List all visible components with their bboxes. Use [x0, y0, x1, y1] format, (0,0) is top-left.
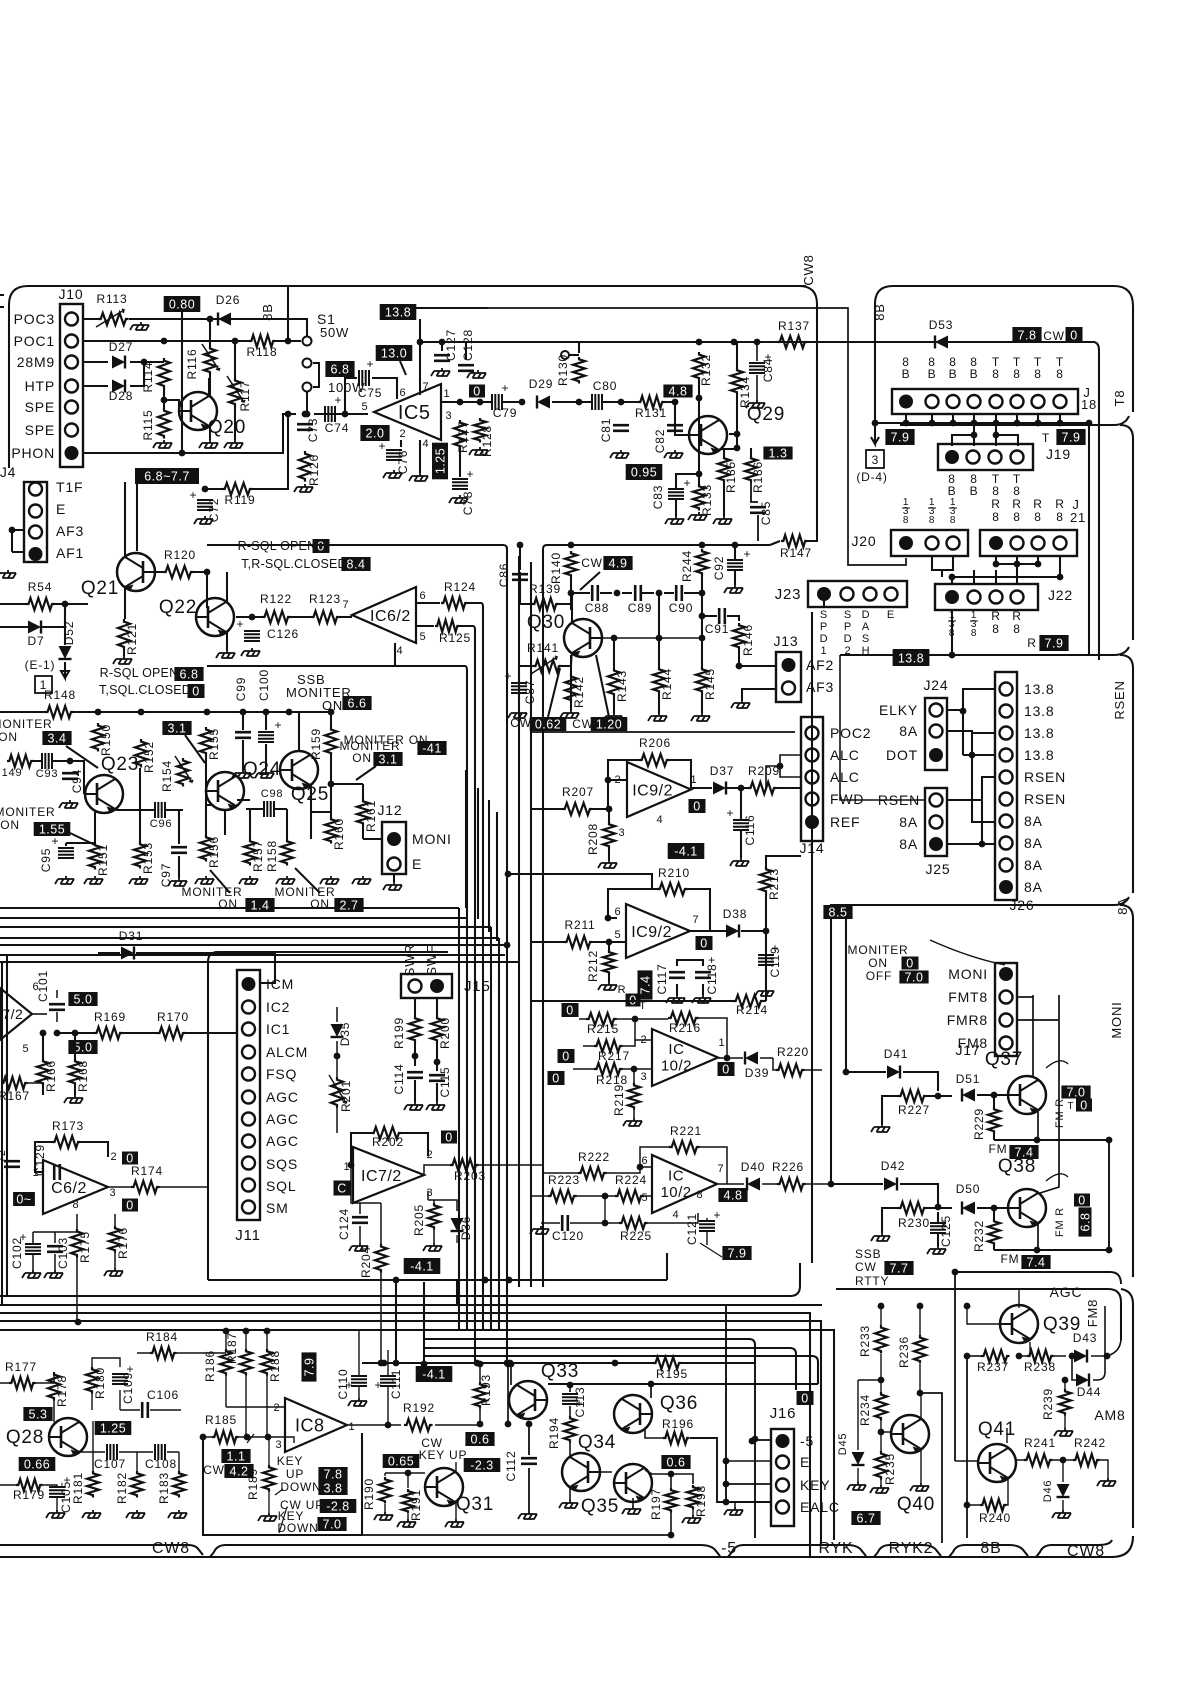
diode D42 — [884, 1178, 897, 1191]
svg-text:R180: R180 — [93, 1367, 107, 1399]
junction e tap — [723, 1458, 730, 1465]
value 5.3 tag — [23, 1407, 52, 1422]
junction q29 coll — [734, 431, 741, 438]
wire vert 424 — [423, 1282, 425, 1364]
svg-text:ON: ON — [310, 897, 330, 911]
wire key pointer — [275, 1489, 287, 1533]
wire c88 row — [571, 592, 702, 594]
connector J10 — [60, 304, 83, 467]
svg-text:AF3: AF3 — [806, 679, 834, 695]
svg-text:R: R — [1055, 497, 1064, 511]
junction out row r144 — [656, 635, 663, 642]
resistor R191 — [402, 1489, 414, 1513]
svg-text:8: 8 — [949, 628, 955, 639]
svg-text:1: 1 — [344, 1161, 351, 1173]
svg-text:HTP: HTP — [25, 378, 55, 394]
svg-text:EALC: EALC — [800, 1499, 840, 1515]
transistor Q29 — [689, 416, 727, 455]
svg-text:8: 8 — [1056, 510, 1063, 524]
svg-text:8: 8 — [697, 1189, 704, 1201]
wire T8 rail — [900, 416, 1129, 425]
wire q25 wires — [299, 712, 331, 839]
svg-text:5: 5 — [642, 1192, 649, 1204]
svg-text:R142: R142 — [572, 676, 586, 708]
diode D45 — [852, 1452, 865, 1465]
wire 0.80 tag drop — [181, 312, 183, 453]
wire R117 bottom — [234, 406, 236, 440]
resistor R220 — [776, 1064, 805, 1076]
wire q41 coll stub — [1006, 1428, 1008, 1443]
resistor R173 — [52, 1136, 81, 1148]
svg-text:AF2: AF2 — [806, 657, 834, 673]
wire ic72 pin3 — [427, 1191, 429, 1200]
wire J21 drops — [996, 556, 1060, 577]
svg-text:C6/2: C6/2 — [51, 1180, 87, 1197]
svg-text:J15: J15 — [464, 978, 491, 995]
capacitor C108 — [155, 1444, 165, 1460]
wire vert 955 — [954, 1272, 956, 1461]
resistor R122 — [262, 611, 291, 623]
svg-text:2: 2 — [427, 1149, 434, 1161]
junction c89-c90 — [656, 590, 663, 597]
svg-text:28M9: 28M9 — [17, 354, 55, 370]
svg-text:0.62: 0.62 — [535, 718, 561, 732]
resistor R180 — [86, 1367, 98, 1394]
resistor R212 — [603, 950, 615, 974]
junction j26 l2 — [969, 752, 976, 759]
svg-text:R137: R137 — [778, 319, 810, 333]
resistor R145 — [696, 667, 708, 694]
svg-text:-4.1: -4.1 — [410, 1260, 434, 1274]
junction rail 141 — [138, 709, 145, 716]
svg-text:R235: R235 — [883, 1453, 897, 1485]
ground Q35 — [622, 1506, 641, 1514]
svg-text:R242: R242 — [1074, 1436, 1106, 1450]
value 0 tag d53 — [1066, 327, 1083, 343]
junction J18 row left — [872, 420, 879, 427]
wire r215 — [579, 1018, 635, 1020]
wire Q21 collector top — [124, 482, 126, 558]
wire r204 — [380, 1203, 382, 1363]
value 0 tag q37r — [1076, 1099, 1092, 1113]
junction r139-c88 — [568, 590, 575, 597]
resistor R154 — [175, 756, 193, 787]
ground R176 — [104, 1268, 123, 1276]
wire c92 — [734, 545, 736, 585]
wire r220 — [773, 1058, 822, 1070]
wire R161 — [331, 784, 363, 839]
diode D37 — [713, 782, 726, 795]
ground C128 — [467, 370, 486, 378]
svg-text:1.3: 1.3 — [769, 447, 788, 461]
svg-text:0: 0 — [126, 1199, 133, 1213]
resistor R197 — [665, 1488, 677, 1512]
wire D29-C80 — [552, 401, 592, 403]
svg-text:2: 2 — [274, 1402, 281, 1414]
resistor R157 — [244, 839, 256, 866]
svg-text:FM: FM — [1001, 1252, 1020, 1266]
resistor R130 — [573, 357, 585, 384]
wire c107-c108b — [80, 1451, 179, 1453]
diode D36 — [451, 1218, 464, 1231]
wire hbus2 — [0, 1304, 822, 1306]
diode D27 — [112, 356, 125, 369]
wire J19 feeds — [952, 423, 1018, 446]
value 4.2 tag — [224, 1464, 253, 1479]
junction C127 — [439, 339, 446, 346]
svg-text:D38: D38 — [723, 907, 747, 921]
junction R54-D52 — [62, 601, 69, 608]
svg-text:+: + — [743, 547, 750, 561]
svg-text:C117: C117 — [655, 964, 669, 995]
resistor R195 — [653, 1357, 682, 1369]
wire r195 — [362, 1362, 755, 1364]
value 7.7 tag — [884, 1261, 913, 1276]
svg-text:B: B — [970, 484, 979, 498]
svg-text:C113: C113 — [573, 1387, 587, 1418]
capacitor C107 — [107, 1444, 117, 1460]
junction C82 — [672, 399, 679, 406]
svg-text:D29: D29 — [529, 377, 553, 391]
svg-text:R201: R201 — [339, 1080, 353, 1112]
junction blockbot b — [482, 1277, 489, 1284]
svg-text:IC8: IC8 — [295, 1415, 325, 1435]
svg-text:2: 2 — [845, 645, 852, 657]
connector J26 — [995, 672, 1017, 900]
ground R239 — [1054, 1428, 1073, 1436]
wire R124 right — [467, 603, 483, 607]
resistor R151 — [89, 843, 101, 870]
wire r181-183 tops — [93, 1421, 179, 1471]
wire block bottom q35 — [362, 1534, 671, 1536]
wire R139 link — [520, 572, 571, 604]
transistor Q37 — [1008, 1076, 1046, 1115]
ground J4 — [0, 570, 16, 578]
wire c121 — [706, 1218, 708, 1245]
svg-text:+: + — [726, 806, 733, 820]
svg-text:R156: R156 — [207, 836, 221, 868]
junction R128 — [477, 399, 484, 406]
svg-text:R161: R161 — [364, 800, 378, 832]
svg-text:13.8: 13.8 — [1024, 725, 1054, 741]
wire r173 loop — [35, 1142, 108, 1172]
svg-text:R215: R215 — [587, 1022, 619, 1036]
junction q36 coll — [648, 1381, 655, 1388]
wire R159-R160 — [330, 755, 332, 817]
diode D53 — [935, 336, 948, 349]
value 0 tag s3 — [548, 1071, 565, 1086]
svg-text:R157: R157 — [251, 840, 265, 872]
wire rsen rail link — [840, 655, 925, 800]
wire ic8 pin2 — [226, 1406, 285, 1408]
wire 28M9 — [83, 361, 164, 363]
wire ic10a out — [718, 1057, 773, 1059]
wire Q22 emitter — [226, 632, 228, 650]
wire af3 — [742, 689, 776, 700]
wire c116 — [740, 788, 742, 858]
svg-text:R113: R113 — [97, 292, 128, 306]
resistor R178 — [48, 1372, 60, 1401]
capacitor C124 — [352, 1217, 368, 1223]
svg-text:R176: R176 — [116, 1227, 130, 1259]
wire d45b — [858, 1380, 881, 1482]
transistor Q34 — [562, 1453, 600, 1492]
junction 1363 a — [381, 1360, 388, 1367]
svg-text:C97: C97 — [159, 863, 173, 887]
svg-text:C128: C128 — [461, 329, 475, 361]
svg-text:C79: C79 — [493, 406, 517, 420]
svg-text:R178: R178 — [55, 1375, 69, 1407]
value 13.8 tag right — [893, 650, 930, 666]
svg-text:C85: C85 — [759, 501, 773, 525]
svg-text:FMT8: FMT8 — [948, 989, 988, 1005]
svg-text:FM8: FM8 — [1085, 1299, 1100, 1327]
svg-text:FM R: FM R — [1054, 1098, 1066, 1128]
svg-text:R223: R223 — [548, 1173, 580, 1187]
svg-text:R: R — [1012, 609, 1021, 623]
wire 3.1 pointer — [185, 735, 205, 763]
svg-text:(D-4): (D-4) — [856, 470, 887, 484]
resistor R148 — [45, 706, 74, 718]
value 3.8 tag ic8 — [318, 1481, 347, 1496]
value 0 tag rsql2 — [188, 684, 205, 699]
svg-text:1: 1 — [719, 1037, 726, 1049]
resistor R188 — [261, 1349, 273, 1376]
svg-text:(E-1): (E-1) — [25, 658, 56, 672]
svg-text:13.8: 13.8 — [1024, 681, 1054, 697]
value 8.5 tag — [823, 905, 852, 920]
svg-text:4.8: 4.8 — [724, 1189, 743, 1203]
capacitor C73 — [297, 424, 313, 430]
wire vbus-b-519 — [518, 556, 520, 1287]
resistor R127 — [454, 420, 466, 449]
svg-text:18: 18 — [1081, 397, 1097, 412]
transistor Q21 — [117, 553, 155, 592]
svg-text:AGC: AGC — [266, 1133, 299, 1149]
junction J18 pin5 — [993, 420, 1000, 427]
wire r146-af2 — [739, 649, 776, 666]
junction J21r2 1060 — [1057, 574, 1064, 581]
wire r176 — [114, 1214, 116, 1268]
resistor R118 — [249, 335, 276, 347]
value 0 tag s1 — [562, 1003, 579, 1018]
ground C99 — [232, 770, 251, 778]
svg-text:Q29: Q29 — [747, 404, 785, 425]
svg-text:R225: R225 — [620, 1229, 652, 1243]
junction j26 l1 — [960, 708, 967, 715]
connector J22 — [935, 584, 1038, 610]
transistor Q41 — [978, 1444, 1016, 1483]
wire r189 wires — [268, 1437, 269, 1513]
svg-text:3: 3 — [276, 1439, 283, 1451]
ground C103 — [44, 1270, 63, 1278]
wire Q22 collector — [226, 572, 228, 603]
resistor R238 — [1027, 1350, 1054, 1362]
svg-text:OFF: OFF — [866, 969, 892, 983]
value 0 tag ic72 — [441, 1131, 457, 1145]
wire gnd stub ealc — [734, 1502, 736, 1507]
svg-text:J12: J12 — [378, 802, 403, 818]
svg-text:T: T — [1042, 431, 1050, 445]
wire j11 block right edge — [666, 1253, 668, 1280]
svg-text:13.8: 13.8 — [1024, 703, 1054, 719]
svg-text:CW: CW — [855, 1260, 877, 1274]
ground R142 — [560, 710, 579, 718]
svg-text:R204: R204 — [359, 1246, 373, 1278]
ground R168 — [64, 1095, 83, 1103]
svg-text:R119: R119 — [225, 493, 256, 507]
wire moni-874 — [508, 874, 652, 889]
junction rail 331 — [328, 709, 335, 716]
svg-text:-5: -5 — [800, 1433, 814, 1449]
connector J17 — [995, 963, 1017, 1056]
wire vert 831 — [830, 918, 832, 1184]
svg-text:R202: R202 — [372, 1135, 404, 1149]
wire ic9b out — [690, 931, 766, 1001]
wire top bars — [92, 1358, 120, 1410]
wire r216 loop — [635, 1018, 727, 1058]
resistor R113 — [96, 309, 129, 327]
svg-text:7: 7 — [693, 914, 700, 926]
junction key tap — [723, 1481, 730, 1488]
svg-text:H: H — [862, 645, 871, 657]
wire hfeed2 — [0, 917, 467, 919]
wire ic9 block top — [531, 731, 795, 733]
wire audio to C74 — [314, 413, 368, 415]
diode D35 — [331, 1024, 344, 1037]
junction C84 — [754, 339, 761, 346]
junction J18 pin6 — [1014, 420, 1021, 427]
value 0 tag c62t — [122, 1152, 138, 1166]
wire r205b — [428, 1200, 457, 1243]
wire IC6 out6 — [416, 602, 440, 604]
junction 726 bot — [723, 1499, 730, 1506]
capacitor C125 — [930, 1223, 946, 1233]
wire vbus-a-499 — [498, 938, 500, 1330]
resistor R121 — [118, 619, 130, 650]
wire right border T8-RSEN — [1120, 425, 1133, 640]
capacitor C101 — [49, 1004, 65, 1010]
junction rail 243 — [240, 709, 247, 716]
capacitor C74 — [325, 406, 335, 422]
junction C73 — [302, 411, 309, 418]
transistor Q24 — [206, 772, 244, 811]
capacitor C91 — [719, 608, 725, 624]
ground R151 — [84, 876, 103, 884]
wire r224 drop — [604, 1196, 606, 1223]
svg-text:R221: R221 — [670, 1124, 702, 1138]
wire J21 row — [952, 564, 1060, 577]
svg-text:C88: C88 — [585, 601, 609, 615]
value 3.1 tag R — [373, 752, 402, 767]
resistor R206 — [639, 754, 670, 766]
svg-text:R124: R124 — [444, 580, 476, 594]
ground C120 — [530, 1226, 549, 1234]
junction R132 top — [696, 339, 703, 346]
value -2.3 tag — [464, 1458, 501, 1473]
resistor R205 — [428, 1203, 440, 1230]
svg-text:D: D — [844, 633, 853, 645]
svg-text:5: 5 — [420, 631, 427, 643]
svg-text:T,R-SQL.CLOSED: T,R-SQL.CLOSED — [241, 557, 347, 571]
svg-text:POC3: POC3 — [14, 311, 55, 327]
resistor R224 — [615, 1190, 644, 1202]
svg-text:R168: R168 — [76, 1060, 90, 1092]
svg-text:J13: J13 — [774, 633, 799, 649]
junction r219 top — [631, 1066, 638, 1073]
junction 0.6 node — [668, 1471, 675, 1478]
wire Q29 emitter — [720, 448, 751, 456]
junction c92 top — [732, 542, 739, 549]
svg-text:RSEN: RSEN — [1112, 680, 1127, 719]
svg-text:DOWN: DOWN — [280, 1480, 321, 1494]
svg-text:8: 8 — [992, 510, 999, 524]
ground C81 — [610, 450, 629, 458]
junction j16 -5 — [749, 1438, 756, 1445]
junction rail r244 — [699, 542, 706, 549]
resistor R114 — [158, 358, 170, 389]
junction r215-216 — [632, 1016, 639, 1023]
resistor R161 — [357, 799, 369, 826]
svg-text:8.5: 8.5 — [829, 906, 848, 920]
value 2.0 tag — [360, 425, 389, 441]
svg-text:8: 8 — [1034, 510, 1041, 524]
svg-text:7.4: 7.4 — [639, 976, 653, 995]
wire C98 row — [246, 809, 287, 839]
svg-text:C126: C126 — [267, 627, 299, 641]
junction rail 207 — [204, 709, 211, 716]
svg-text:R145: R145 — [703, 668, 717, 700]
svg-text:ON: ON — [0, 818, 20, 832]
wire r174 — [108, 1186, 208, 1188]
svg-text:R188: R188 — [268, 1350, 282, 1382]
wire vbus-a-467 — [466, 671, 468, 1330]
svg-text:R191: R191 — [409, 1489, 423, 1521]
svg-text:1: 1 — [444, 388, 451, 400]
wire r212 — [608, 942, 610, 982]
svg-text:POC2: POC2 — [830, 725, 871, 741]
wire r185 — [203, 1437, 294, 1443]
svg-text:Q22: Q22 — [159, 597, 197, 618]
ground R158 — [276, 876, 295, 884]
wire r144 — [658, 593, 660, 713]
junction r240 left — [964, 1502, 971, 1509]
value 0.6 tag ic8 — [465, 1432, 494, 1447]
svg-text:CW8: CW8 — [152, 1540, 190, 1557]
wire r179b — [0, 1485, 57, 1510]
wire IC5 output — [441, 401, 522, 403]
junction r187t — [243, 1328, 250, 1335]
junction r201 top — [334, 1053, 341, 1060]
wire q37 emitter — [1037, 1110, 1039, 1140]
tick J22p1 — [948, 620, 956, 622]
wire r240b — [967, 1478, 1008, 1505]
svg-text:MONI: MONI — [948, 966, 988, 982]
svg-text:6.8: 6.8 — [180, 668, 199, 682]
wire Q20 collector — [208, 378, 210, 396]
svg-text:POC1: POC1 — [14, 333, 55, 349]
junction out row r143b — [611, 635, 618, 642]
junction r193 bot — [477, 1421, 484, 1428]
ground C102 — [22, 1270, 41, 1278]
svg-text:S: S — [844, 609, 852, 621]
wire J4 links — [12, 530, 24, 552]
value 7.0 tag j17 — [899, 971, 928, 985]
value 7.4 tag rot — [638, 970, 653, 999]
junction r237-238 — [1016, 1353, 1023, 1360]
wire AGC rail — [836, 1289, 1121, 1340]
svg-text:R194: R194 — [547, 1417, 561, 1449]
